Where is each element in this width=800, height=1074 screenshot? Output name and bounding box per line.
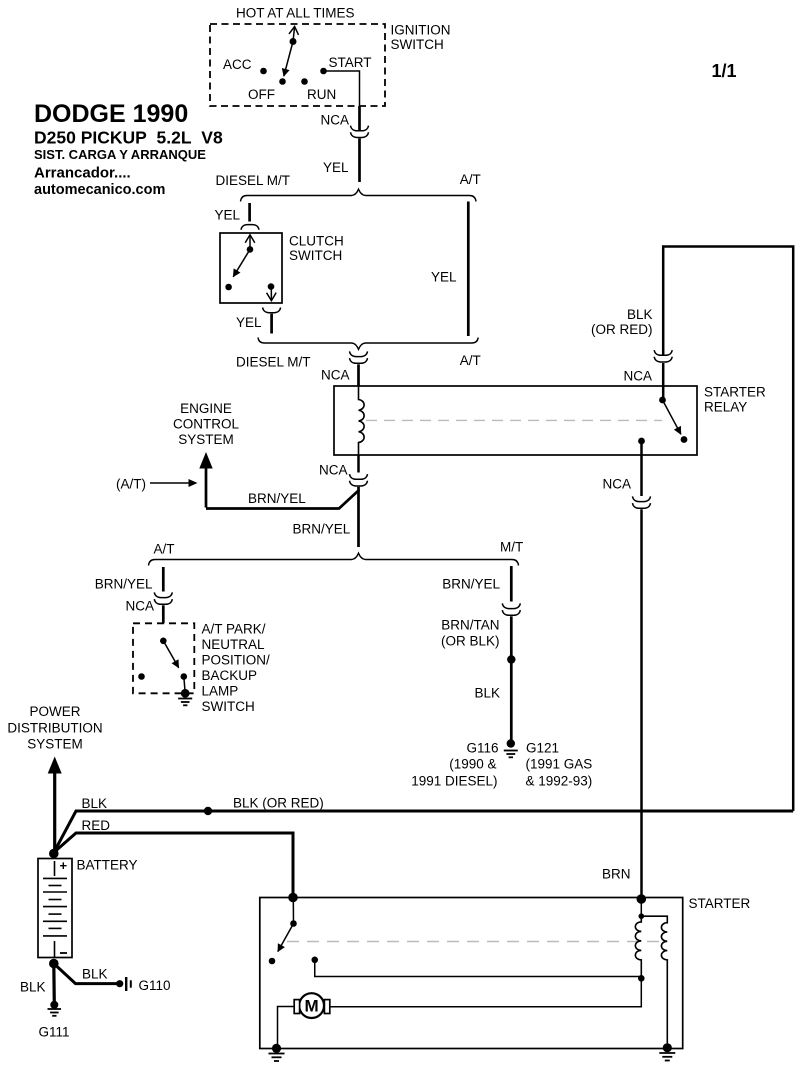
svg-text:SWITCH: SWITCH (391, 37, 444, 52)
svg-text:NCA: NCA (319, 463, 348, 478)
ignition switch label (391, 23, 451, 53)
starter dashed link (287, 941, 663, 943)
arrow (A/T) pointer (150, 479, 198, 487)
svg-text:BLK: BLK (627, 307, 653, 322)
svg-text:(1990 &: (1990 & (449, 757, 496, 772)
terminal G110 (116, 977, 131, 991)
wire battery negative to G111 (52, 964, 56, 1005)
svg-text:BLK: BLK (82, 967, 108, 982)
svg-text:G111: G111 (39, 1025, 70, 1040)
splice dot M/T (507, 655, 515, 663)
svg-text:BLK: BLK (474, 686, 500, 701)
svg-text:M/T: M/T (500, 540, 523, 555)
label G116 (411, 741, 498, 789)
starter box (260, 898, 683, 1049)
svg-text:YEL: YEL (236, 315, 262, 330)
motor M1 (294, 993, 330, 1018)
starter BRN input node (637, 894, 647, 904)
svg-text:BRN/YEL: BRN/YEL (293, 522, 351, 537)
svg-text:BRN/YEL: BRN/YEL (248, 491, 306, 506)
clutch switch input arrow (249, 235, 251, 250)
park switch left contact (138, 673, 145, 680)
svg-text:BATTERY: BATTERY (77, 858, 138, 873)
wire BRN/YEL M/T branch (510, 566, 513, 602)
park/neutral switch box (dashed) (133, 623, 194, 693)
starter winding bottom node (330, 975, 645, 1007)
svg-text:BRN: BRN (602, 867, 631, 882)
connector NCA relay input (654, 350, 672, 362)
wire BLK battery to right riser (54, 811, 793, 853)
svg-text:A/T: A/T (460, 172, 481, 187)
starter right winding (641, 916, 667, 1048)
svg-text:ACC: ACC (223, 57, 252, 72)
svg-text:START: START (329, 55, 372, 70)
connector NCA left branch (154, 592, 172, 604)
wire YEL A/T branch right (467, 202, 470, 337)
svg-text:+: + (60, 858, 68, 873)
starter left winding (635, 916, 641, 978)
wire BRN/YEL down (357, 490, 360, 547)
svg-text:BRN/YEL: BRN/YEL (442, 577, 500, 592)
svg-text:STARTER: STARTER (689, 896, 751, 911)
svg-text:BRN/TAN: BRN/TAN (441, 618, 499, 633)
ground G111 (48, 1001, 62, 1016)
connector NCA ignition (351, 126, 369, 138)
relay dashed link (366, 419, 662, 421)
wire BRN/TAN down (510, 616, 513, 659)
wire BRN/YEL branch to engine control (206, 487, 359, 509)
svg-text:(OR RED): (OR RED) (591, 322, 653, 337)
svg-text:1991 DIESEL): 1991 DIESEL) (411, 774, 497, 789)
svg-text:(OR BLK): (OR BLK) (441, 634, 500, 649)
svg-text:DIESEL M/T: DIESEL M/T (236, 355, 311, 370)
splice dot BLK (204, 807, 212, 815)
wire YEL to clutch switch (248, 203, 251, 222)
svg-text:RED: RED (82, 818, 111, 833)
svg-text:SYSTEM: SYSTEM (178, 432, 234, 447)
svg-text:RUN: RUN (307, 87, 336, 102)
battery minus (60, 952, 67, 954)
svg-text:& 1992-93): & 1992-93) (526, 774, 593, 789)
svg-text:NCA: NCA (321, 368, 350, 383)
svg-text:G121: G121 (526, 741, 559, 756)
ground park switch (178, 689, 192, 705)
svg-text:NCA: NCA (125, 599, 154, 614)
starter switch (269, 898, 297, 965)
svg-text:CONTROL: CONTROL (173, 417, 239, 432)
svg-text:POSITION/: POSITION/ (202, 653, 271, 668)
park switch blade (160, 638, 179, 668)
svg-text:DIESEL M/T: DIESEL M/T (216, 173, 291, 188)
wire ignition output (358, 106, 361, 130)
svg-text:BLK: BLK (82, 796, 108, 811)
svg-text:SYSTEM: SYSTEM (27, 737, 83, 752)
svg-text:OFF: OFF (248, 87, 275, 102)
clutch switch blade (233, 246, 253, 277)
wire BRN to starter (640, 509, 643, 897)
svg-text:automecanico.com: automecanico.com (34, 182, 165, 198)
ground starter left (269, 1044, 285, 1061)
clutch switch box (220, 233, 282, 303)
clutch switch label (289, 234, 344, 264)
ignition switch movable blade (284, 38, 297, 76)
wire YEL ignition to split (358, 138, 361, 182)
battery negative terminal (49, 959, 59, 969)
wire relay output down (640, 441, 643, 496)
svg-text:IGNITION: IGNITION (391, 23, 451, 38)
svg-text:(1991 GAS: (1991 GAS (526, 757, 593, 772)
clutch switch lower-left contact (225, 284, 232, 291)
park/neutral switch label (202, 622, 271, 715)
svg-text:LAMP: LAMP (202, 684, 239, 699)
label BRN/TAN (OR BLK) (441, 618, 500, 649)
park switch output contact (181, 673, 188, 693)
relay switch (659, 397, 687, 443)
power distribution arrow (48, 757, 62, 854)
wire BLK down (510, 660, 513, 740)
engine control system label (173, 401, 239, 447)
merge bracket 2 (258, 338, 478, 350)
svg-text:BLK: BLK (20, 980, 46, 995)
ignition contact START (320, 55, 371, 74)
connector clutch bottom (263, 308, 281, 313)
svg-text:YEL: YEL (323, 160, 349, 175)
svg-text:NEUTRAL: NEUTRAL (202, 637, 266, 652)
starter coil junction (639, 899, 645, 919)
wire relay coil to NCA (357, 455, 360, 473)
svg-text:BACKUP: BACKUP (202, 668, 258, 683)
svg-text:(A/T): (A/T) (116, 477, 146, 492)
wire battery feed top run (663, 247, 793, 811)
wire START to box bottom (324, 71, 360, 106)
svg-text:HOT AT ALL TIMES: HOT AT ALL TIMES (236, 5, 355, 20)
svg-text:Arrancador....: Arrancador.... (34, 165, 131, 182)
svg-text:DODGE 1990: DODGE 1990 (34, 100, 188, 128)
power distribution system label (7, 704, 102, 752)
engine control arrow (199, 452, 212, 508)
svg-text:NCA: NCA (623, 369, 652, 384)
wire motor to ground (278, 1007, 295, 1049)
svg-text:ENGINE: ENGINE (180, 401, 232, 416)
label G121 (526, 741, 593, 789)
battery positive terminal (49, 849, 59, 859)
connector NCA relay output (633, 496, 651, 508)
svg-text:NCA: NCA (602, 477, 631, 492)
battery plates (43, 861, 67, 957)
connector M/T branch (502, 603, 520, 615)
starter solenoid contact node (311, 957, 641, 977)
svg-text:YEL: YEL (214, 208, 240, 223)
svg-text:DISTRIBUTION: DISTRIBUTION (7, 721, 102, 736)
ground starter right (659, 1043, 675, 1060)
svg-text:1/1: 1/1 (712, 61, 737, 81)
svg-text:SIST. CARGA Y ARRANQUE: SIST. CARGA Y ARRANQUE (34, 147, 206, 162)
wire RED battery to starter (54, 833, 293, 898)
svg-text:RELAY: RELAY (704, 400, 747, 415)
ignition contact ACC (223, 57, 267, 74)
splice bracket 3 (149, 553, 519, 565)
connector clutch top (241, 225, 259, 230)
svg-text:NCA: NCA (320, 113, 349, 128)
ignition contact OFF (248, 78, 286, 102)
svg-text:YEL: YEL (431, 270, 457, 285)
svg-text:SWITCH: SWITCH (289, 248, 342, 263)
svg-text:D250 PICKUP 5.2L V8: D250 PICKUP 5.2L V8 (34, 128, 223, 148)
splice bracket 1 (241, 189, 477, 201)
connector NCA coil out (350, 474, 368, 486)
svg-text:BRN/YEL: BRN/YEL (95, 577, 153, 592)
wire into park/neutral switch (162, 605, 165, 623)
svg-text:G110: G110 (139, 978, 171, 993)
title DODGE 1990 (34, 100, 223, 198)
relay coil (359, 386, 365, 455)
connector NCA below bracket 2 (350, 351, 368, 363)
ignition contact RUN (301, 78, 336, 102)
wire YEL clutch to bracket (270, 314, 273, 334)
wire battery negative to G110 (54, 964, 117, 984)
ground G116/G121 (504, 739, 518, 757)
ignition switch feed arrow to HOT AT ALL TIMES (293, 27, 295, 42)
svg-text:STARTER: STARTER (704, 385, 766, 400)
svg-text:SWITCH: SWITCH (202, 699, 255, 714)
ignition switch box (dashed) (210, 24, 385, 106)
svg-text:A/T PARK/: A/T PARK/ (202, 622, 266, 637)
svg-text:POWER: POWER (29, 704, 80, 719)
wire BRN/YEL A/T branch (162, 567, 165, 592)
battery box (38, 859, 72, 958)
svg-text:A/T: A/T (154, 542, 175, 557)
label BLK (OR RED) right (591, 307, 653, 337)
wire into relay coil (357, 364, 360, 386)
relay output contact (638, 438, 645, 445)
svg-text:M: M (305, 997, 319, 1016)
svg-text:G116: G116 (467, 741, 499, 756)
starter solenoid input node (288, 893, 298, 903)
starter relay label (704, 385, 766, 415)
clutch switch output contact (268, 283, 275, 300)
svg-text:BLK (OR RED): BLK (OR RED) (233, 796, 324, 811)
starter relay box (334, 386, 697, 455)
wire into relay switch (662, 363, 665, 400)
svg-text:A/T: A/T (460, 353, 481, 368)
svg-text:CLUTCH: CLUTCH (289, 234, 344, 249)
